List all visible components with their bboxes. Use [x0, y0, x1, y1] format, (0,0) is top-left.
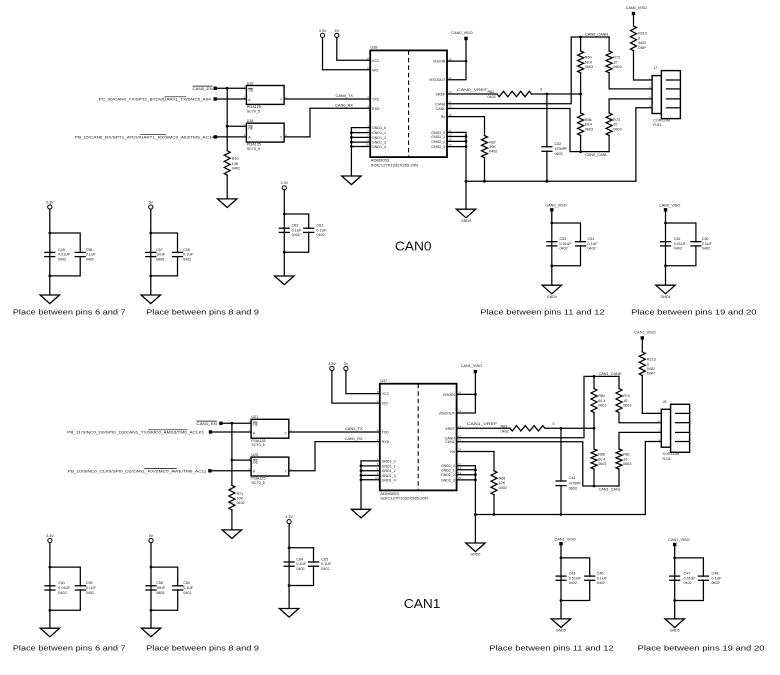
wire 3.3V rail group1 CAN1 — [49, 543, 51, 629]
junction bottom groupB CAN1 — [673, 599, 676, 602]
junction top group5 CAN0 — [664, 222, 667, 225]
resistor R69 — [578, 51, 593, 73]
port terminal PC_00 TX — [214, 97, 217, 100]
net CAN0_VISO power flag group4 CAN0 — [545, 203, 566, 211]
svg-text:10K: 10K — [232, 162, 239, 166]
svg-text:U18: U18 — [247, 119, 254, 123]
capacitor C45 — [584, 572, 607, 586]
wire CAN1_VISO rail groupB CAN1 — [674, 546, 676, 619]
wire Rterm upper to mid — [580, 73, 582, 94]
svg-text:GND1_0: GND1_0 — [382, 459, 396, 463]
svg-text:3.3V: 3.3V — [46, 534, 54, 538]
resistor R63 0 ohm — [501, 422, 555, 433]
svg-text:5V: 5V — [149, 534, 154, 538]
wire GND2 bus vertical — [474, 466, 476, 515]
svg-text:10K: 10K — [499, 481, 506, 485]
svg-text:0402: 0402 — [499, 486, 507, 490]
svg-text:C60: C60 — [183, 581, 190, 585]
ground groupA CAN1 — [551, 619, 570, 633]
svg-text:C45: C45 — [597, 572, 604, 576]
svg-text:0402: 0402 — [569, 581, 577, 585]
wire resistor to ground — [226, 175, 228, 199]
svg-text:GND1_3: GND1_3 — [382, 474, 396, 478]
port terminal PB_10 RX — [208, 469, 211, 472]
svg-text:CANH: CANH — [435, 102, 446, 106]
svg-text:10UF: 10UF — [156, 586, 166, 590]
power 3.3V group3 CAN1 — [285, 515, 293, 524]
svg-text:0402: 0402 — [86, 591, 94, 595]
svg-text:3.3V: 3.3V — [281, 181, 289, 185]
ground group5 CAN0 — [656, 285, 675, 299]
capacitor C48 — [698, 572, 722, 586]
capacitor C47 — [669, 572, 696, 586]
svg-text:R67: R67 — [489, 140, 496, 144]
svg-text:0: 0 — [638, 36, 640, 40]
capacitor C60 — [172, 581, 194, 595]
wire top to C48 groupB CAN1 — [675, 558, 704, 576]
wire bottom from C48 groupB CAN1 — [675, 580, 704, 600]
resistor R86 — [578, 113, 593, 135]
wire GND2_0 — [457, 465, 476, 467]
svg-text:GND4: GND4 — [547, 295, 557, 299]
ground group2 CAN1 — [141, 628, 160, 637]
wire rail to Rterm upper — [593, 376, 595, 388]
svg-text:GND2_3: GND2_3 — [441, 478, 455, 482]
buffer U18 (PI3A125, SC70_5) — [244, 119, 288, 151]
junction GND1 bus — [350, 141, 353, 144]
junction enable bus at lower OE — [226, 125, 229, 128]
capacitor C44 — [555, 476, 582, 490]
power 3.3V group1 CAN0 — [46, 200, 54, 209]
wire 5V rail group2 CAN0 — [150, 209, 152, 295]
wire rail to Rseries upper — [608, 37, 610, 51]
svg-text:4700PF: 4700PF — [569, 481, 583, 485]
resistor R85 — [591, 449, 606, 469]
svg-text:RJ11: RJ11 — [663, 457, 671, 461]
svg-text:C47: C47 — [684, 572, 691, 576]
wire GND1_0 — [361, 460, 380, 462]
svg-text:CAN0_VREF: CAN0_VREF — [457, 87, 488, 92]
svg-text:Place between pins 19 and 20: Place between pins 19 and 20 — [631, 308, 756, 317]
junction top group2 CAN0 — [149, 232, 152, 235]
net label PB_15/CAN0_RX/SPT1_ATDV/UART1_RX/SMC0_A03/TMS_AC14 — [75, 135, 215, 140]
svg-text:CAN1_TX: CAN1_TX — [345, 426, 363, 431]
svg-text:OE: OE — [253, 460, 259, 464]
port terminal CAN1_EN — [219, 422, 222, 425]
svg-text:10K: 10K — [237, 497, 244, 501]
svg-text:CAN0_RX: CAN0_RX — [335, 103, 353, 108]
svg-text:0402: 0402 — [296, 567, 304, 571]
wire slope resistor to ground rail — [493, 495, 495, 515]
wire Rseries lower to rail — [608, 135, 610, 151]
resistor R73 — [606, 113, 621, 135]
port terminal CAN0_EN — [214, 87, 217, 90]
wire 5V rail group2 CAN1 — [150, 543, 152, 629]
wire VISO to DNP resistor — [633, 15, 635, 26]
wire mid to Rterm lower — [580, 94, 582, 113]
svg-text:PB_11/SINC0_D0/SPI0_D3/CAN1_TX: PB_11/SINC0_D0/SPI0_D3/CAN1_TX/SMC0_AMS3… — [67, 430, 204, 435]
wire rail to Rterm upper — [580, 37, 582, 51]
junction GND1 bus — [360, 465, 363, 468]
wire enable bus vertical — [231, 423, 233, 485]
svg-text:DNP: DNP — [647, 372, 655, 376]
ground group3 CAN0 — [275, 276, 294, 285]
wire VREF to termination cap — [546, 94, 548, 147]
wire TX input to buffer A — [215, 98, 246, 100]
svg-text:0402: 0402 — [638, 41, 646, 45]
wire top to C59 group1 CAN1 — [50, 567, 80, 586]
svg-text:U19: U19 — [247, 81, 254, 85]
resistor R212 — [631, 26, 647, 51]
junction termination midpoint — [579, 93, 582, 96]
wire 3.3V rail group3 CAN1 — [288, 524, 290, 609]
net label PB_10/SINC0_CLK0/SPI0_D2/CAN1_RX/SMC0_AWE/TM0_AC11 — [68, 468, 207, 473]
wire top to C65 group3 CAN1 — [289, 548, 313, 562]
svg-text:Place between pins 8 and 9: Place between pins 8 and 9 — [146, 644, 259, 653]
wire bottom from C54 group4 CAN0 — [552, 246, 581, 266]
svg-text:C65: C65 — [321, 557, 328, 561]
wire CANH to top rail — [457, 376, 619, 437]
wire top to C45 groupA CAN1 — [561, 558, 590, 576]
junction top group4 CAN0 — [550, 222, 553, 225]
svg-text:CAN0_VISO: CAN0_VISO — [626, 6, 647, 10]
svg-text:CAN0_CANL: CAN0_CANL — [585, 153, 607, 157]
capacitor C64 — [284, 557, 308, 571]
junction top groupA CAN1 — [560, 557, 563, 560]
wire bottom from C56 group1 CAN0 — [50, 257, 80, 276]
svg-text:0402: 0402 — [237, 501, 245, 505]
svg-text:0402: 0402 — [597, 581, 605, 585]
wire CAN0_VISO rail group4 CAN0 — [551, 212, 553, 286]
svg-text:GND1_4: GND1_4 — [382, 478, 396, 482]
wire GND1_2 — [361, 470, 380, 472]
svg-text:C48: C48 — [712, 572, 719, 576]
svg-text:GND1_1: GND1_1 — [382, 464, 396, 468]
svg-text:VCC: VCC — [382, 392, 390, 396]
svg-text:U20: U20 — [251, 453, 258, 457]
wire 3.3V to VIO — [332, 371, 380, 404]
capacitor C50 — [690, 237, 712, 251]
svg-text:0603: 0603 — [623, 404, 631, 408]
wire RX input to buffer A — [210, 470, 251, 472]
svg-text:0805: 0805 — [156, 257, 164, 261]
wire Rterm upper to mid — [593, 413, 595, 429]
wire 3.3V to VIO — [323, 38, 371, 70]
wire Rterm lower to rail — [593, 469, 595, 486]
junction rail at slope resistor — [483, 180, 486, 183]
wire bottom from C63 group3 CAN0 — [284, 232, 308, 252]
resistor R72 — [606, 51, 621, 73]
power 3.3V supply to VIO — [319, 29, 327, 38]
svg-text:5V: 5V — [344, 362, 349, 366]
svg-text:Place between pins 11 and 12: Place between pins 11 and 12 — [480, 308, 604, 317]
wire GND1_3 — [351, 141, 370, 143]
ground below R71 — [222, 530, 241, 539]
wire TXD net — [289, 431, 380, 433]
junction GND2 bus — [474, 468, 477, 471]
net label CAN0_EN — [193, 86, 213, 91]
svg-text:0.01UF: 0.01UF — [684, 576, 697, 580]
wire resistor to ground — [231, 510, 233, 530]
junction CANH rail — [593, 375, 596, 378]
wire CAN1_VISO rail groupA CAN1 — [560, 545, 562, 619]
buffer U19 (PI3A125, SC70_5) — [244, 81, 288, 113]
svg-text:3.3V: 3.3V — [46, 200, 54, 204]
wire 5V to VCC — [346, 371, 380, 394]
svg-text:PB_15/CAN0_RX/SPT1_ATDV/UART1_: PB_15/CAN0_RX/SPT1_ATDV/UART1_RX/SMC0_A0… — [75, 135, 215, 140]
svg-text:0.1UF: 0.1UF — [296, 562, 307, 566]
svg-text:CAN0_TX: CAN0_TX — [335, 93, 353, 98]
svg-text:0.01UF: 0.01UF — [58, 586, 71, 590]
wire GND1_4 — [361, 479, 380, 481]
wire GND2_1 — [457, 469, 476, 471]
wire VISOIN — [447, 60, 466, 62]
svg-text:TXD: TXD — [382, 431, 390, 435]
wire GND2_2 — [457, 474, 476, 476]
power 5V group2 CAN1 — [149, 534, 154, 543]
ground group1 CAN0 — [40, 295, 59, 304]
junction GND1 bus — [360, 469, 363, 472]
wire GND1_2 — [351, 136, 370, 138]
wire VREF to series resistor — [457, 427, 510, 429]
svg-text:Place between pins 8 and 9: Place between pins 8 and 9 — [146, 308, 259, 317]
svg-text:GND2_2: GND2_2 — [441, 473, 455, 477]
svg-text:VCC: VCC — [372, 59, 380, 63]
capacitor C58 — [145, 581, 166, 595]
junction top group3 CAN1 — [288, 546, 291, 549]
svg-text:DNP: DNP — [638, 46, 646, 50]
svg-text:GND4: GND4 — [661, 295, 671, 299]
wire DNP resistor to connector pin 1 — [642, 376, 661, 414]
junction rail left — [465, 180, 468, 183]
power 5V supply to VCC — [344, 362, 349, 371]
svg-text:3.3V: 3.3V — [319, 29, 327, 33]
svg-text:C61: C61 — [58, 581, 65, 585]
svg-text:CAN1_VISO: CAN1_VISO — [668, 538, 689, 542]
svg-text:CANL: CANL — [436, 107, 446, 111]
net CAN1_VISO power flag at IC — [461, 364, 482, 373]
svg-text:0603: 0603 — [585, 65, 593, 69]
junction enable bus top — [226, 87, 229, 90]
svg-text:OE: OE — [253, 423, 259, 427]
wire RXD net — [284, 108, 370, 137]
svg-text:0.1UF: 0.1UF — [86, 586, 97, 590]
svg-text:SC70_5: SC70_5 — [251, 481, 264, 485]
svg-text:0402: 0402 — [183, 257, 191, 261]
junction bottom group2 CAN0 — [149, 275, 152, 278]
capacitor C52 — [541, 142, 568, 156]
ground GND1 — [351, 509, 370, 518]
svg-text:R81: R81 — [623, 453, 630, 457]
svg-text:R85: R85 — [598, 453, 605, 457]
svg-text:CAN0: CAN0 — [395, 238, 432, 253]
wire GND1_3 — [361, 474, 380, 476]
junction rail left — [474, 513, 477, 516]
svg-text:C62: C62 — [292, 224, 299, 228]
svg-text:0.1UF: 0.1UF — [321, 562, 332, 566]
svg-text:SC70_5: SC70_5 — [247, 109, 260, 113]
svg-text:SOIC127P1032X265-20N: SOIC127P1032X265-20N — [380, 497, 428, 501]
junction top group1 CAN0 — [48, 232, 51, 235]
wire GND2 bus vertical — [465, 132, 467, 181]
capacitor C62 — [279, 224, 303, 238]
svg-text:CAN1_RX: CAN1_RX — [345, 436, 363, 441]
svg-text:3.3V: 3.3V — [285, 515, 293, 519]
svg-text:0.1UF: 0.1UF — [86, 253, 97, 257]
svg-text:Place between pins 19 and 20: Place between pins 19 and 20 — [638, 644, 765, 653]
junction CANH rail — [579, 36, 582, 39]
svg-text:0.01UF: 0.01UF — [560, 242, 573, 246]
wire Rseries upper to connector pin 2 — [609, 73, 652, 89]
svg-text:CAN1_VREF: CAN1_VREF — [467, 421, 498, 426]
svg-text:0402: 0402 — [488, 95, 496, 99]
svg-text:C51: C51 — [674, 237, 681, 241]
power 3.3V group1 CAN1 — [46, 534, 54, 543]
wire VREF to termination cap — [560, 428, 562, 481]
ground GND4 rail — [456, 209, 475, 223]
svg-text:CAN1_EN: CAN1_EN — [196, 421, 217, 426]
svg-text:0402: 0402 — [501, 429, 509, 433]
junction VREF at cap — [560, 427, 563, 430]
wire GND1_1 — [361, 465, 380, 467]
resistor R68 — [491, 471, 507, 495]
svg-text:CAN1: CAN1 — [404, 596, 441, 611]
svg-text:0.01UF: 0.01UF — [569, 576, 582, 580]
junction bottom group4 CAN0 — [550, 264, 553, 267]
svg-text:SC70_5: SC70_5 — [247, 147, 260, 151]
capacitor C49 — [44, 248, 71, 262]
svg-text:Place between pins 6 and 7: Place between pins 6 and 7 — [13, 644, 126, 653]
wire Rs to slope resistor — [447, 117, 485, 136]
resistor R81 — [616, 449, 631, 469]
svg-text:CAN0_VISO: CAN0_VISO — [659, 203, 680, 207]
ground GND1 — [342, 176, 361, 185]
svg-text:R70: R70 — [232, 157, 239, 161]
junction GND2 bus — [474, 479, 477, 482]
capacitor C57 — [145, 248, 166, 262]
svg-text:0402: 0402 — [588, 247, 596, 251]
svg-text:R62: R62 — [488, 90, 495, 94]
svg-text:U37: U37 — [380, 379, 387, 383]
svg-text:0402: 0402 — [292, 233, 300, 237]
wire DNP resistor to connector pin 1 — [634, 51, 653, 80]
power 3.3V supply to VIO — [328, 362, 336, 371]
svg-text:0402: 0402 — [674, 247, 682, 251]
svg-text:Place between pins 11 and 12: Place between pins 11 and 12 — [489, 644, 613, 653]
svg-text:U38: U38 — [371, 46, 378, 50]
svg-text:0.1UF: 0.1UF — [712, 576, 723, 580]
svg-text:GND1_3: GND1_3 — [372, 141, 386, 145]
junction GND1 bus — [360, 478, 363, 481]
junction GND1 bus — [350, 136, 353, 139]
svg-text:0402: 0402 — [58, 591, 66, 595]
svg-text:GND1_0: GND1_0 — [372, 126, 386, 130]
svg-text:60.4: 60.4 — [598, 399, 605, 403]
junction rail at slope resistor — [493, 513, 496, 516]
wire CANH to top rail — [447, 37, 609, 104]
junction top group3 CAN0 — [283, 213, 286, 216]
svg-text:0.1UF: 0.1UF — [702, 242, 713, 246]
wire VREF to termination mid — [532, 93, 581, 95]
wire bottom from C59 group1 CAN1 — [50, 590, 80, 610]
wire GND2_3 — [457, 479, 476, 481]
resistor R70 — [224, 151, 240, 175]
svg-text:C59: C59 — [86, 581, 93, 585]
svg-text:GND5: GND5 — [470, 553, 480, 557]
capacitor C65 — [308, 557, 332, 571]
svg-text:4700PF: 4700PF — [555, 147, 569, 151]
capacitor C46 — [555, 572, 581, 586]
svg-text:OE: OE — [248, 126, 254, 130]
net CAN0_VISO power flag group5 CAN0 — [659, 203, 680, 211]
wire VREF to termination mid — [545, 427, 594, 429]
wire connector pin 3 to Rseries lower — [609, 99, 652, 113]
wire VISO to VISOOUT — [447, 40, 466, 80]
wire VISO to VISOOUT — [457, 373, 476, 413]
capacitor C51 — [660, 237, 687, 251]
svg-text:R63: R63 — [501, 424, 508, 428]
ground group1 CAN1 — [40, 628, 59, 637]
wire GND1_4 — [351, 146, 370, 148]
svg-text:RXD: RXD — [382, 440, 390, 444]
wire CAN0_VISO rail group5 CAN0 — [665, 212, 667, 286]
capacitor C61 — [44, 581, 71, 595]
svg-text:GND2_1: GND2_1 — [431, 135, 445, 139]
svg-text:PI3A125: PI3A125 — [247, 105, 261, 109]
svg-text:0603: 0603 — [613, 127, 621, 131]
net CAN0_VISO power flag at R212 — [626, 6, 647, 15]
wire top to C60 group2 CAN1 — [151, 567, 178, 586]
svg-text:5V: 5V — [335, 29, 340, 33]
svg-text:CAN1_VISO: CAN1_VISO — [461, 364, 482, 368]
svg-text:Rs: Rs — [441, 115, 446, 119]
wire connector pin 4 to ground rail — [636, 108, 652, 181]
wire VISOIN — [457, 393, 476, 395]
svg-text:0402: 0402 — [232, 167, 240, 171]
wire bottom from C50 group5 CAN0 — [666, 246, 696, 266]
net label CAN1_EN — [196, 421, 217, 426]
svg-text:CAN1_CANL: CAN1_CANL — [599, 488, 621, 492]
power 5V group2 CAN0 — [149, 200, 154, 209]
power 3.3V group3 CAN0 — [281, 181, 289, 190]
svg-text:VISOOUT: VISOOUT — [439, 412, 456, 416]
wire 3.3V rail group3 CAN0 — [283, 190, 285, 276]
net label PC_00/CAN0_TX/SPT1_BTDV/UART1_TX/SMC0_A04 — [99, 97, 212, 102]
svg-text:RJ11: RJ11 — [653, 123, 661, 127]
capacitor C55 — [172, 248, 194, 262]
wire enable to lower buffer OE — [227, 125, 246, 127]
svg-text:0603: 0603 — [613, 65, 621, 69]
wire bottom from C45 groupA CAN1 — [561, 580, 590, 600]
wire TX input to buffer A — [211, 431, 252, 433]
svg-text:CAN0_EN: CAN0_EN — [193, 86, 213, 91]
net CAN1_VISO power flag groupA CAN1 — [555, 537, 576, 545]
svg-text:10: 10 — [613, 123, 617, 127]
svg-text:SOIC127P1032X265-20N: SOIC127P1032X265-20N — [371, 163, 419, 167]
svg-text:SC70_5: SC70_5 — [251, 443, 264, 447]
svg-text:R73: R73 — [613, 118, 620, 122]
svg-text:0402: 0402 — [702, 247, 710, 251]
wire slope resistor to ground rail — [484, 158, 486, 182]
svg-text:C56: C56 — [86, 248, 93, 252]
wire Rseries lower to rail — [618, 469, 620, 486]
svg-text:0: 0 — [540, 88, 542, 92]
ground GND5 rail — [466, 543, 485, 557]
svg-text:0603: 0603 — [569, 486, 577, 490]
wire connector pin 4 to ground rail — [645, 442, 661, 515]
svg-text:CAN1_VISO: CAN1_VISO — [555, 537, 576, 541]
wire GND2_1 — [447, 136, 466, 138]
